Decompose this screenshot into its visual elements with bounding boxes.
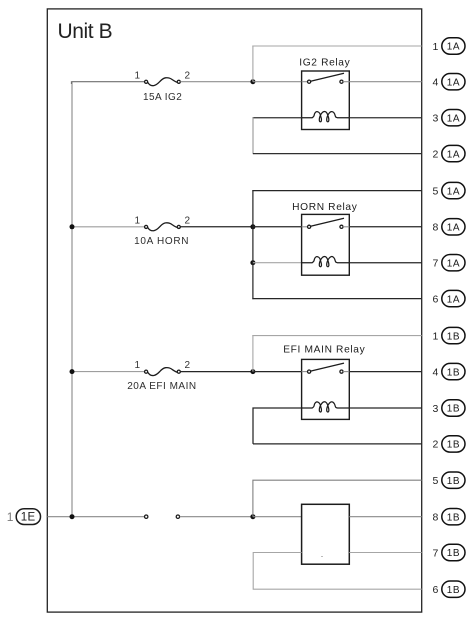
switch blade bbox=[311, 73, 344, 81]
svg-text:2: 2 bbox=[433, 439, 439, 451]
wire row6 to pin 6 (1A) bbox=[252, 298, 421, 300]
wire coil left L bbox=[253, 408, 302, 444]
switch blade bbox=[311, 363, 344, 371]
svg-text:1B: 1B bbox=[447, 585, 460, 596]
switch contact right (open) bbox=[176, 515, 179, 518]
fuse 15A IG2 bbox=[145, 78, 181, 86]
svg-text:IG2 Relay: IG2 Relay bbox=[299, 57, 350, 68]
wire vertical HORN bbox=[252, 190, 254, 299]
svg-text:10A HORN: 10A HORN bbox=[134, 236, 189, 247]
wire coil to pin 3 (1A) bbox=[349, 117, 421, 119]
connector oval 1A row7 bbox=[442, 255, 465, 271]
svg-text:1E: 1E bbox=[21, 512, 36, 524]
svg-text:1A: 1A bbox=[447, 223, 460, 234]
svg-text:1: 1 bbox=[433, 330, 439, 342]
svg-text:1A: 1A bbox=[447, 186, 460, 197]
junction dot HORN upper bbox=[250, 224, 255, 229]
svg-text:8: 8 bbox=[433, 512, 439, 524]
switch contact left bbox=[308, 80, 311, 83]
switch contact left bbox=[308, 225, 311, 228]
wire coil left vertical bbox=[252, 117, 254, 154]
wire switch to junction bbox=[180, 516, 253, 518]
svg-text:1: 1 bbox=[134, 70, 140, 81]
coil IG2 bbox=[302, 111, 350, 121]
wire coil to pin 7 (1A) bbox=[349, 262, 421, 264]
switch stub right bbox=[343, 371, 349, 373]
connector oval 1B row4 bbox=[442, 363, 465, 379]
bus junction dot EFI bbox=[70, 369, 75, 374]
svg-text:1A: 1A bbox=[447, 113, 460, 124]
svg-text:1: 1 bbox=[134, 215, 140, 226]
wire junction to relay bbox=[253, 226, 302, 228]
wire row1 to pin 1 (1A) bbox=[252, 45, 421, 47]
svg-text:1: 1 bbox=[7, 510, 14, 524]
switch stub left bbox=[302, 371, 308, 373]
wire pin 4 (1A) bbox=[349, 81, 421, 83]
corner bus top bbox=[70, 81, 72, 84]
relay box IG2 bbox=[302, 71, 350, 130]
wire row5 to pin 5 (1A) bbox=[252, 190, 421, 192]
wire bus to fuse 10A bbox=[72, 226, 145, 228]
block box bbox=[302, 504, 350, 564]
wire row1 to pin 1 (1B) bbox=[252, 335, 421, 337]
wire row2 to pin 2 (1A) bbox=[253, 153, 422, 155]
switch contact left (open) bbox=[145, 515, 148, 518]
svg-text:4: 4 bbox=[433, 77, 439, 89]
svg-text:1B: 1B bbox=[447, 331, 460, 342]
svg-text:8: 8 bbox=[433, 222, 439, 234]
svg-text:1B: 1B bbox=[447, 440, 460, 451]
wire coil to pin 3 (1B) bbox=[349, 407, 421, 409]
wire fuse to junction bbox=[180, 81, 253, 83]
connector oval 1B row5 bbox=[442, 472, 465, 488]
junction dot HORN lower bbox=[250, 260, 255, 265]
switch blade bbox=[311, 218, 344, 226]
switch contact right bbox=[340, 225, 343, 228]
svg-text:5: 5 bbox=[433, 475, 439, 487]
wire block to pin 7 (1B) bbox=[349, 552, 421, 554]
switch stub right bbox=[343, 81, 349, 83]
switch stub left bbox=[302, 226, 308, 228]
connector oval 1A row1 bbox=[442, 38, 465, 54]
bus wire vertical bbox=[71, 82, 73, 517]
svg-text:2: 2 bbox=[185, 360, 191, 371]
svg-text:2: 2 bbox=[433, 148, 439, 160]
junction dot EFI bbox=[250, 369, 255, 374]
relay box HORN bbox=[302, 214, 350, 275]
svg-text:15A IG2: 15A IG2 bbox=[143, 92, 182, 103]
bus junction dot HORN bbox=[70, 224, 75, 229]
svg-text:2: 2 bbox=[185, 215, 191, 226]
junction dot IG2 bbox=[250, 79, 255, 84]
svg-text:Unit B: Unit B bbox=[58, 20, 113, 43]
fuse 20A EFI MAIN bbox=[145, 368, 181, 376]
connector oval 1E bbox=[16, 509, 40, 525]
svg-text:1B: 1B bbox=[447, 367, 460, 378]
svg-text:1B: 1B bbox=[447, 548, 460, 559]
wire block left 7-level U to pin 6 (1B) bbox=[253, 553, 422, 590]
connector oval 1B row1 bbox=[442, 327, 465, 343]
wire fuse to junction bbox=[180, 371, 253, 373]
switch stub left bbox=[302, 81, 308, 83]
svg-text:1A: 1A bbox=[447, 258, 460, 269]
svg-text:1A: 1A bbox=[447, 294, 460, 305]
switch contact left bbox=[308, 370, 311, 373]
connector oval 1A row8 bbox=[442, 219, 465, 235]
svg-text:4: 4 bbox=[433, 366, 439, 378]
wire junction to relay bbox=[253, 371, 302, 373]
svg-text:HORN Relay: HORN Relay bbox=[292, 202, 358, 213]
svg-text:2: 2 bbox=[185, 70, 191, 81]
svg-text:1B: 1B bbox=[447, 476, 460, 487]
svg-text:7: 7 bbox=[433, 258, 439, 270]
connector oval 1A row4 bbox=[442, 74, 465, 90]
svg-text:1: 1 bbox=[433, 41, 439, 53]
connector oval 1A row5 bbox=[442, 182, 465, 198]
wire pin 8 (1A) bbox=[349, 226, 421, 228]
switch contact right bbox=[340, 80, 343, 83]
switch contact right bbox=[340, 370, 343, 373]
connector oval 1A row6 bbox=[442, 290, 465, 306]
junction dot bottom center bbox=[250, 514, 255, 519]
svg-text:7: 7 bbox=[433, 547, 439, 559]
svg-text:3: 3 bbox=[433, 113, 439, 125]
svg-text:1: 1 bbox=[134, 360, 140, 371]
wire coil junction to relay bbox=[253, 262, 302, 264]
coil HORN bbox=[302, 256, 350, 266]
wire vertical junction to row1 bbox=[252, 335, 254, 372]
wire row2 to pin 2 (1B) bbox=[253, 443, 422, 445]
wire block to pin 8 (1B) bbox=[349, 516, 421, 518]
connector oval 1B row2 bbox=[442, 436, 465, 452]
block inner mark bbox=[321, 556, 323, 557]
switch stub right bbox=[343, 226, 349, 228]
wire bus to fuse 15A bbox=[72, 81, 145, 83]
bus junction dot bottom bbox=[70, 514, 75, 519]
connector oval 1A row3 bbox=[442, 110, 465, 126]
relay box EFI MAIN bbox=[302, 359, 350, 419]
wire coil left horizontal bbox=[253, 117, 302, 119]
Unit B enclosure bbox=[47, 9, 421, 612]
svg-text:1A: 1A bbox=[447, 77, 460, 88]
svg-text:20A EFI MAIN: 20A EFI MAIN bbox=[127, 381, 196, 392]
wire 1E row from enclosure bbox=[47, 516, 144, 518]
connector oval 1B row6 bbox=[442, 581, 465, 597]
svg-text:1B: 1B bbox=[447, 512, 460, 523]
connector oval 1B row7 bbox=[442, 544, 465, 560]
wire junction to relay bbox=[253, 81, 302, 83]
wire vertical junction to row1 bbox=[252, 46, 254, 82]
fuse 10A HORN bbox=[145, 223, 181, 231]
svg-text:1A: 1A bbox=[447, 42, 460, 53]
wire junction up to pin 5 (1B) bbox=[253, 480, 422, 517]
svg-text:3: 3 bbox=[433, 403, 439, 415]
connector oval 1B row8 bbox=[442, 509, 465, 525]
svg-text:6: 6 bbox=[433, 293, 439, 305]
wire bus to fuse 20A bbox=[72, 371, 145, 373]
wire junction to block bbox=[253, 516, 302, 518]
wire fuse to junction bbox=[180, 226, 253, 228]
connector oval 1B row3 bbox=[442, 400, 465, 416]
coil EFI MAIN bbox=[302, 402, 350, 412]
svg-text:5: 5 bbox=[433, 185, 439, 197]
svg-text:1A: 1A bbox=[447, 149, 460, 160]
svg-text:EFI MAIN Relay: EFI MAIN Relay bbox=[283, 345, 365, 356]
wire pin 4 (1B) bbox=[349, 371, 421, 373]
svg-text:6: 6 bbox=[433, 584, 439, 596]
svg-text:1B: 1B bbox=[447, 404, 460, 415]
connector oval 1A row2 bbox=[442, 145, 465, 161]
